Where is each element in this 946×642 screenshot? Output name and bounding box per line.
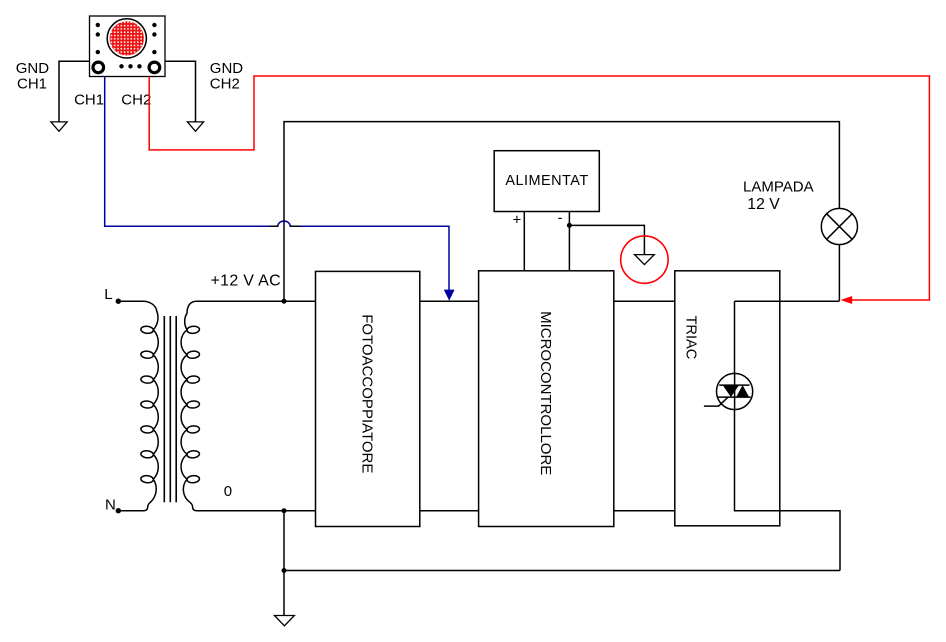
wire triac cathode [735,410,841,571]
label GND CH2 [210,60,244,92]
wire triac anode [735,301,840,374]
oscilloscope [90,16,166,77]
wire minus to reference ground [569,225,644,254]
node bottom rail [282,508,287,513]
node top rail [282,299,287,304]
wire CH2 probe (red) [149,76,929,300]
transformer T1 primary [118,301,158,511]
red circle marker [621,236,668,283]
svg-text:CH2: CH2 [210,75,240,92]
wire lamp to node [838,245,840,301]
svg-text:LAMPADA: LAMPADA [743,178,814,195]
svg-text:TRIAC: TRIAC [683,316,699,360]
probe arrow CH2 [841,296,853,304]
ground GND CH1 [51,122,67,131]
wire scope GND CH2 [165,61,196,121]
transformer core [164,316,176,502]
box FOTOACCOPPIATORE [316,271,420,526]
box TRIAC [675,271,780,526]
wire top rail [196,300,675,302]
terminal N [116,508,121,513]
svg-text:12 V: 12 V [747,196,780,213]
svg-text:N: N [105,496,116,513]
wire ALIMENTAT + [523,212,525,271]
wire top loop [284,122,839,302]
node bottom return [282,568,287,573]
wire bottom return [284,511,840,616]
svg-text:ALIMENTAT: ALIMENTAT [505,173,588,189]
svg-text:CH1: CH1 [17,75,47,92]
terminal L [116,299,121,304]
lamp [821,208,857,244]
box MICROCONTROLLORE [479,271,614,527]
box ALIMENTAT [494,151,599,212]
wire ALIMENTAT - [568,212,570,271]
svg-text:0: 0 [224,483,232,500]
wire CH1 probe (blue) [105,77,449,291]
transformer T1 secondary [181,301,199,511]
label GND CH1 [16,60,50,92]
wire scope GND CH1 [59,61,90,121]
reference ground symbol [635,255,655,265]
svg-text:-: - [558,210,563,227]
ground GND CH2 [187,122,203,131]
svg-text:+: + [513,211,522,228]
svg-text:CH1: CH1 [74,92,104,109]
svg-text:L: L [104,286,112,303]
node minus [567,223,572,228]
probe arrow CH1 [444,290,455,301]
triac Q1 symbol [704,373,753,409]
wire bottom rail [196,510,675,512]
svg-text:CH2: CH2 [121,92,151,109]
svg-text:+12 V AC: +12 V AC [211,273,281,290]
svg-text:MICROCONTROLLORE: MICROCONTROLLORE [537,311,554,475]
svg-text:FOTOACCOPPIATORE: FOTOACCOPPIATORE [359,314,376,473]
main ground [274,616,294,626]
